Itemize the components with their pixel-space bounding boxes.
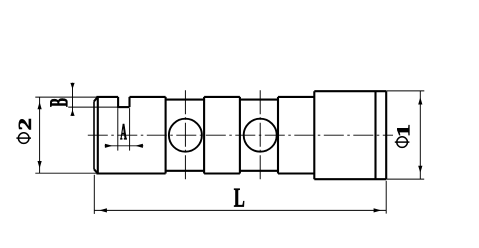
inner line near right end: [374, 91, 376, 179]
step up to big section: [313, 91, 315, 179]
phi symbol of phi2: [16, 133, 31, 144]
dimension phi1: extension line bottom: [386, 178, 424, 180]
dimension phi1: dimension line: [419, 91, 421, 179]
dimension B: arrow down (above, pointing to top ext): [70, 83, 74, 89]
notch left wall: [117, 97, 119, 107]
hole circle 2: [244, 119, 277, 152]
dimension B: dimension line: [72, 83, 74, 116]
chamfer top diagonal: [94, 97, 98, 101]
hole circle 1: [169, 119, 202, 152]
dimension L: extension line left: [93, 175, 95, 214]
dimension L: arrow pointing right: [374, 208, 382, 212]
dimension phi2: extension line bottom: [35, 172, 97, 174]
right end face: [385, 91, 387, 179]
dimension phi2: dimension line: [39, 97, 41, 173]
dimension phi1: extension line top: [386, 90, 424, 92]
step up to section 4: [203, 97, 205, 174]
shaft outline: bottom profile: [94, 169, 386, 179]
step down to hole section 1: [165, 97, 167, 174]
dimension A: extension line right: [129, 108, 131, 150]
label 1 of phi1 (rotated): [397, 125, 409, 135]
vertical centerline hole 1: [184, 90, 186, 179]
chamfer edge line: [97, 97, 99, 174]
dimension A: arrow pointing right: [105, 144, 113, 148]
step down to hole section 2: [239, 97, 241, 174]
dimension A: dimension line: [105, 145, 144, 147]
step up to section 6: [277, 97, 279, 174]
top edge section 2 right: [130, 96, 166, 98]
dimension phi1: arrow down: [418, 166, 422, 173]
notch floor: [117, 106, 129, 108]
dimension phi2: arrow down: [38, 161, 42, 168]
bottom edge section 6: [278, 172, 314, 174]
top edge hole section 1: [166, 99, 205, 101]
dimension phi2: arrow up: [38, 102, 42, 109]
left end face: [93, 101, 95, 169]
bottom edge section 4: [204, 172, 240, 174]
top edge section 4: [204, 96, 240, 98]
shaft outline: top profile: [94, 91, 386, 179]
label B (notch depth, rotated): [50, 99, 67, 107]
top edge hole section 2: [240, 99, 278, 101]
dimension B: arrow up (below, pointing to bottom ext): [70, 110, 74, 116]
dimension B: extension line bottom (from notch floor): [68, 106, 118, 108]
vertical centerline hole 2: [259, 90, 261, 180]
top edge big section: [314, 90, 386, 92]
label L (overall length): [234, 189, 244, 207]
dimension L: dimension line: [94, 209, 386, 211]
bottom edge big section: [314, 178, 386, 180]
dimension A: arrow pointing left: [135, 144, 143, 148]
dimension L: arrow pointing left: [99, 208, 107, 212]
notch right wall: [128, 97, 130, 107]
top edge section 2 left: [96, 96, 118, 98]
label 2 of phi2 (rotated): [19, 119, 31, 130]
top edge section 6: [278, 96, 314, 98]
chamfer bottom diagonal: [94, 169, 98, 173]
dimension L: extension line right: [385, 181, 387, 214]
main horizontal centerline: [88, 134, 393, 136]
dimension A: extension line left: [117, 108, 119, 150]
label A (notch width): [120, 124, 126, 139]
dimension phi2: extension line top: [35, 96, 96, 98]
phi symbol of phi1: [395, 137, 410, 148]
bottom edge section 2: [96, 172, 165, 174]
bottom edge hole section 2: [240, 170, 278, 172]
bottom edge hole section 1: [166, 170, 205, 172]
dimension phi1: arrow up: [418, 97, 422, 104]
